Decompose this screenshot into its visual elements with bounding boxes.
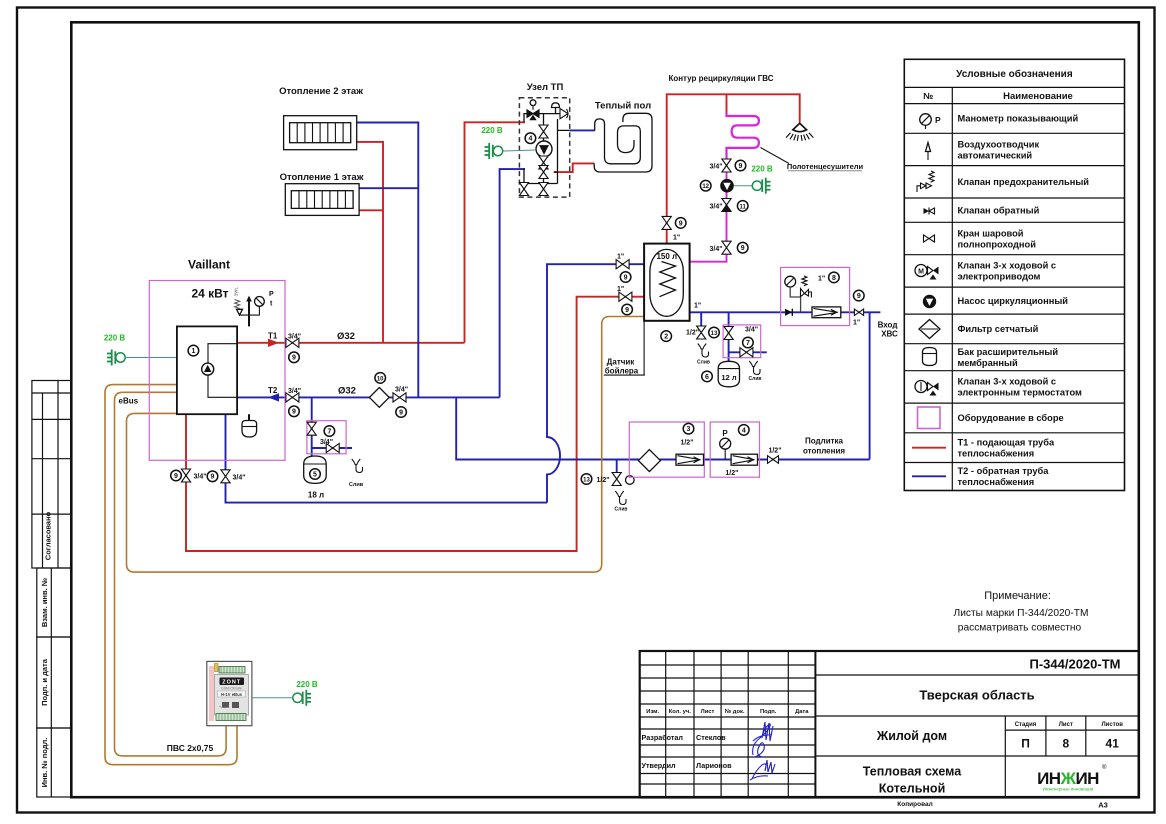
title block row Разработал Стеклов <box>642 733 727 742</box>
svg-text:Подлитка: Подлитка <box>805 437 844 446</box>
wire 18l expansion stub <box>312 397 352 456</box>
wire red riser radiators <box>357 142 383 343</box>
svg-text:М: М <box>918 269 924 276</box>
node 7 12l <box>743 337 754 348</box>
check valve box8 <box>785 309 792 316</box>
filter makeup (diamond) <box>638 450 660 472</box>
ZONT bottom terminal <box>216 714 246 721</box>
node 9 tank left blue <box>620 272 631 283</box>
wire eBus 2 <box>115 392 227 756</box>
svg-text:1": 1" <box>853 320 860 327</box>
wire T1 riser to Узел ТП <box>465 122 526 342</box>
svg-text:3/4": 3/4" <box>710 204 723 211</box>
wire red from floor loop <box>554 163 594 172</box>
svg-text:Контур рециркуляции ГВС: Контур рециркуляции ГВС <box>668 74 773 83</box>
svg-text:10: 10 <box>377 376 384 382</box>
drain 12l <box>749 361 760 375</box>
valve makeup <box>768 456 779 464</box>
ZONT module body <box>207 661 252 725</box>
ZONT 220V plug <box>293 693 302 702</box>
wire red DHW supply from boiler bottom <box>186 297 660 551</box>
ZONT 220V teal wire <box>252 697 292 699</box>
legend symbol кран шаровой <box>924 235 935 242</box>
wire GVS red tank top riser <box>667 94 800 243</box>
svg-text:рассматривать совместно: рассматривать совместно <box>958 623 1082 634</box>
wire blue DHW riser with hop <box>547 264 644 502</box>
svg-text:1": 1" <box>818 276 825 283</box>
ZONT connectors <box>222 702 229 708</box>
legend symbol предохранительный <box>929 171 934 182</box>
svg-text:Клапан обратный: Клапан обратный <box>958 205 1040 215</box>
svg-text:9: 9 <box>624 274 628 281</box>
valve tank drain <box>697 326 706 333</box>
svg-text:П-344/2020-ТМ: П-344/2020-ТМ <box>1030 657 1121 672</box>
ZONT face plate <box>215 675 249 716</box>
Узел ТП pump <box>536 141 552 157</box>
ZONT top terminal <box>219 667 245 674</box>
svg-text:eBus: eBus <box>119 397 139 406</box>
node 2 tank <box>661 331 672 342</box>
wire 220V to boiler <box>126 357 177 359</box>
pump towel (dark) <box>721 180 733 192</box>
svg-text:9: 9 <box>399 409 403 416</box>
wire blue riser radiators <box>357 123 419 398</box>
svg-text:Насос циркуляционный: Насос циркуляционный <box>958 296 1069 306</box>
svg-text:Клапан предохранительный: Клапан предохранительный <box>958 177 1090 187</box>
flex connector box4 <box>731 454 757 465</box>
svg-text:теплоснабжения: теплоснабжения <box>958 477 1035 487</box>
svg-text:220 В: 220 В <box>751 165 773 174</box>
svg-text:5: 5 <box>313 471 317 478</box>
svg-text:Инженерные инновации: Инженерные инновации <box>1043 787 1094 792</box>
svg-text:Манометр показывающий: Манометр показывающий <box>958 114 1079 124</box>
svg-text:7: 7 <box>327 428 331 435</box>
svg-text:Р: Р <box>722 429 728 438</box>
svg-text:Изм.: Изм. <box>646 709 659 715</box>
svg-text:150 л: 150 л <box>656 252 677 261</box>
legend symbol воздухоотводчик <box>926 143 931 152</box>
mesh filter box8 <box>812 307 841 318</box>
svg-text:Ø32: Ø32 <box>337 331 355 342</box>
svg-text:8: 8 <box>832 275 836 282</box>
svg-text:4: 4 <box>742 427 746 434</box>
Узел ТП balancing valve <box>539 125 548 132</box>
node 9 towel v1 <box>735 160 746 171</box>
wire T1 supply from boiler <box>237 342 464 344</box>
left strip box Подп. и дата <box>37 637 72 728</box>
svg-text:П: П <box>1021 737 1030 751</box>
drain tank <box>698 344 709 358</box>
svg-text:GSM-Climate: GSM-Climate <box>221 687 242 691</box>
box8 gauge stem <box>790 287 800 312</box>
left strip box Взам. инв. № <box>37 568 72 637</box>
node 7 18l <box>324 426 335 437</box>
wire towel magenta serpentine <box>727 113 759 161</box>
svg-text:Наименование: Наименование <box>1003 91 1073 102</box>
wire red stub to towel coil <box>726 94 728 113</box>
wire boiler sensor <box>127 317 645 573</box>
callout line полотенцесушители <box>761 148 790 164</box>
stage cells labels <box>1015 722 1124 728</box>
ball valve after box8 <box>854 309 863 315</box>
legend symbol Т1 red line <box>912 447 946 449</box>
svg-text:Примечание:: Примечание: <box>984 590 1051 602</box>
legend symbol 3-х ходовой с электроприводом <box>915 265 927 277</box>
node 13 makeup drain <box>581 474 592 485</box>
wire T2 arrow <box>268 393 279 401</box>
svg-text:Стеклов: Стеклов <box>696 733 726 742</box>
svg-text:41: 41 <box>1106 737 1120 751</box>
towel pump 220V plug <box>752 181 761 190</box>
svg-text:Стадия: Стадия <box>1015 722 1037 728</box>
svg-text:бойлера: бойлера <box>605 367 639 376</box>
node 11 towel <box>737 201 748 212</box>
valve boiler red drop <box>181 469 190 476</box>
svg-text:3/4": 3/4" <box>233 474 246 481</box>
svg-text:Ларионов: Ларионов <box>696 761 732 770</box>
wire makeup blue <box>456 397 869 459</box>
equipment box 3 (magenta) <box>629 422 704 477</box>
svg-text:Вход: Вход <box>878 321 898 330</box>
svg-text:1/2": 1/2" <box>686 330 699 337</box>
wire tank drain stub <box>700 312 702 326</box>
manometer box4 <box>720 438 731 449</box>
svg-text:Датчик: Датчик <box>607 358 636 367</box>
valve T2 <box>286 393 299 402</box>
radiator floor 1 <box>285 184 359 216</box>
valve 12l stub <box>724 327 733 334</box>
title block right grid <box>815 675 1138 798</box>
node 9 T1 <box>289 352 300 363</box>
svg-text:8: 8 <box>1062 737 1069 751</box>
title block outer <box>640 651 1139 798</box>
boiler manometer P t <box>255 297 265 307</box>
svg-text:Лист: Лист <box>701 709 715 715</box>
svg-text:12: 12 <box>702 184 709 190</box>
DHW tank inner oval <box>650 249 683 316</box>
svg-text:ИНЖИН: ИНЖИН <box>1037 769 1099 788</box>
DHW tank coil zigzag <box>660 262 676 297</box>
svg-text:Тепловая схема: Тепловая схема <box>863 765 962 779</box>
svg-text:Бак расширительный: Бак расширительный <box>958 347 1059 357</box>
svg-text:Дата: Дата <box>795 709 809 715</box>
dashed box Узел ТП <box>519 98 569 197</box>
svg-text:13: 13 <box>711 331 718 337</box>
svg-text:Слив: Слив <box>615 507 628 513</box>
Узел ТП valve pair below pump <box>539 156 548 163</box>
svg-text:Подп. и дата: Подп. и дата <box>40 658 49 706</box>
svg-text:ПВС 2х0,75: ПВС 2х0,75 <box>167 743 214 753</box>
shower head <box>793 123 807 131</box>
svg-text:1/2": 1/2" <box>597 477 610 484</box>
boiler body <box>177 326 237 414</box>
svg-text:1/2": 1/2" <box>768 448 781 455</box>
node 8 <box>829 272 840 283</box>
svg-text:6: 6 <box>705 374 709 381</box>
node 9 after box8 <box>854 290 865 301</box>
boiler internal piping <box>208 344 237 398</box>
boiler pump <box>202 363 214 375</box>
svg-text:Ø32: Ø32 <box>338 386 356 397</box>
svg-text:ЗWL: ЗWL <box>234 287 239 297</box>
valve makeup drain <box>612 473 621 480</box>
svg-text:9: 9 <box>174 473 178 480</box>
box8 safety valve <box>802 276 807 286</box>
node 6 12l <box>702 371 713 382</box>
wire eBus 1 <box>105 385 237 765</box>
svg-text:Vaillant: Vaillant <box>188 258 230 272</box>
node 9 towel v3 <box>737 242 748 253</box>
ZONT logo <box>220 678 245 686</box>
svg-text:Лист: Лист <box>1059 722 1073 728</box>
Узел ТП internal piping <box>524 108 570 196</box>
node 5 18l <box>310 469 321 480</box>
equipment box 4 (magenta) <box>710 422 759 477</box>
svg-text:Листов: Листов <box>1101 722 1123 728</box>
cap makeup drain <box>626 476 635 485</box>
svg-text:Оборудование в сборе: Оборудование в сборе <box>958 413 1064 423</box>
svg-text:Тверская область: Тверская область <box>919 688 1034 703</box>
svg-text:1/2": 1/2" <box>725 470 738 477</box>
svg-text:12 л: 12 л <box>721 373 736 382</box>
svg-text:18 л: 18 л <box>308 491 324 500</box>
svg-text:220 В: 220 В <box>104 334 126 343</box>
svg-text:Узел ТП: Узел ТП <box>527 82 564 93</box>
svg-text:3/4": 3/4" <box>194 474 207 481</box>
legend symbol оборудование box <box>918 407 941 429</box>
wire XBC riser blue <box>869 312 871 459</box>
flex connector box3 <box>676 454 704 465</box>
boiler expansion vessel <box>242 421 257 438</box>
svg-text:Отопление 2 этаж: Отопление 2 этаж <box>279 86 363 97</box>
valve tank left blue <box>616 260 629 269</box>
svg-text:Слив: Слив <box>749 376 762 382</box>
wire towel coil serpentine <box>595 119 641 164</box>
svg-text:теплоснабжения: теплоснабжения <box>958 449 1035 459</box>
svg-text:ZONT: ZONT <box>222 680 241 686</box>
Узел ТП 3-way valve <box>527 110 539 118</box>
Узел ТП 220V plug <box>493 146 502 155</box>
svg-text:Т1 - подающая труба: Т1 - подающая труба <box>958 438 1055 448</box>
valve 18l horizontal <box>326 443 339 452</box>
svg-text:Р: Р <box>269 291 274 298</box>
svg-text:13: 13 <box>583 477 590 483</box>
svg-text:9: 9 <box>679 220 683 227</box>
legend symbol Т2 blue line <box>912 475 946 477</box>
valve tank top riser <box>662 216 671 223</box>
valve tank left red <box>619 292 632 301</box>
node 13 tank drain <box>709 327 720 338</box>
ZONT pink side strip <box>209 666 214 721</box>
valve 18l stub <box>307 422 316 429</box>
Узел ТП air vent <box>552 103 560 108</box>
legend symbol манометр <box>920 114 932 126</box>
legend symbol бак <box>923 348 937 366</box>
left strip box Инв. № подл. <box>37 728 72 797</box>
equipment box 8 (magenta) <box>781 267 850 325</box>
svg-text:мембранный: мембранный <box>958 358 1018 368</box>
node 9 boiler red drop <box>171 470 182 481</box>
towel pump teal wire <box>734 185 753 187</box>
svg-text:9: 9 <box>739 163 743 170</box>
svg-text:Слив: Слив <box>349 482 364 488</box>
Узел ТП pump feed teal <box>503 150 536 151</box>
svg-text:Инв. № подл.: Инв. № подл. <box>40 738 49 788</box>
drain makeup <box>615 491 626 505</box>
svg-text:9: 9 <box>857 293 861 300</box>
node 4 Узел ТП <box>525 133 536 144</box>
svg-text:электронным термостатом: электронным термостатом <box>958 388 1083 398</box>
filter T2 (diamond) <box>369 388 389 408</box>
title block row Утвердил Ларионов <box>642 761 733 770</box>
svg-text:1: 1 <box>191 348 195 355</box>
svg-text:3/4": 3/4" <box>710 164 723 171</box>
Узел ТП bottom valve center <box>539 183 548 190</box>
radiator floor 2 <box>284 116 357 150</box>
expansion tank 18l <box>304 456 327 483</box>
svg-text:Клапан 3-х ходовой с: Клапан 3-х ходовой с <box>958 261 1057 271</box>
wire blue DHW return to boiler bottom <box>226 414 548 502</box>
svg-text:1": 1" <box>617 286 624 293</box>
left strip: Соглас: table <box>32 381 71 569</box>
wire T1 arrow <box>268 339 279 347</box>
wire makeup drain stub <box>616 460 618 473</box>
svg-text:Отопление 1 этаж: Отопление 1 этаж <box>280 172 364 183</box>
svg-text:Клапан 3-х ходовой с: Клапан 3-х ходовой с <box>958 377 1057 387</box>
equipment box Vaillant (magenta) <box>149 281 285 461</box>
node 9 after filter <box>396 407 407 418</box>
svg-text:4: 4 <box>528 136 532 143</box>
svg-text:H-1V eBus: H-1V eBus <box>221 692 243 697</box>
equipment box 18l group (magenta) <box>307 421 346 454</box>
svg-text:Теплый пол: Теплый пол <box>595 101 651 112</box>
svg-text:Р: Р <box>935 115 941 125</box>
svg-text:Полотенцесушители: Полотенцесушители <box>787 162 864 171</box>
valve after filter <box>393 393 406 402</box>
node 1 boiler <box>188 345 199 356</box>
svg-text:Разработал: Разработал <box>642 733 684 742</box>
boiler relief valve <box>237 309 243 315</box>
svg-text:ХВС: ХВС <box>881 330 898 339</box>
valve towel v1 <box>722 159 731 166</box>
svg-text:220 В: 220 В <box>296 680 318 689</box>
box8 manometer <box>785 276 796 287</box>
drain 18l <box>352 459 363 473</box>
wire floor loop outer <box>594 113 652 172</box>
equipment box 12l group (magenta) <box>723 325 761 358</box>
wire T2 riser from Узел ТП <box>500 169 525 397</box>
node 12 towel pump <box>700 180 711 191</box>
legend symbol насос <box>924 296 936 308</box>
svg-text:автоматический: автоматический <box>958 150 1033 160</box>
svg-text:Утвердил: Утвердил <box>642 761 677 770</box>
node 9 boiler blue drop <box>207 471 218 482</box>
legend symbol 3-х ходовой с термостатом <box>915 381 927 393</box>
svg-text:Копировал: Копировал <box>897 801 932 808</box>
svg-text:11: 11 <box>740 204 747 210</box>
svg-text:9: 9 <box>292 409 296 416</box>
svg-text:7: 7 <box>746 340 750 347</box>
svg-text:Слив: Слив <box>697 360 710 366</box>
check valve towel (11) <box>722 199 731 206</box>
svg-text:№ док.: № док. <box>725 709 745 715</box>
svg-text:Согласовано: Согласовано <box>44 511 53 560</box>
legend symbol фильтр <box>919 320 940 339</box>
boiler 220V plug <box>116 353 125 362</box>
ZONT antenna nub <box>215 664 219 672</box>
svg-text:Кран шаровой: Кран шаровой <box>958 228 1024 238</box>
wire towel branch magenta <box>690 160 727 262</box>
svg-text:№: № <box>923 91 933 101</box>
svg-text:Кол. уч.: Кол. уч. <box>669 709 691 715</box>
svg-text:9: 9 <box>211 474 215 481</box>
svg-text:Воздухоотводчик: Воздухоотводчик <box>958 139 1040 149</box>
svg-text:А3: А3 <box>1098 801 1108 810</box>
node 10 filter <box>375 373 386 384</box>
title block grid left part <box>640 651 816 798</box>
svg-text:9: 9 <box>741 245 745 252</box>
boiler safety group arrow up <box>246 296 252 302</box>
svg-text:3: 3 <box>687 426 691 433</box>
svg-text:1": 1" <box>673 235 680 242</box>
wire T2 return to boiler <box>237 396 500 398</box>
stage values П 8 41 <box>1021 737 1119 751</box>
svg-text:1": 1" <box>694 303 701 310</box>
svg-text:электроприводом: электроприводом <box>958 272 1041 282</box>
legend symbol обратный <box>924 208 930 214</box>
valve boiler blue drop <box>221 470 230 477</box>
Узел ТП bottom valve left <box>519 183 528 190</box>
svg-text:полнопроходной: полнопроходной <box>958 239 1037 249</box>
svg-text:Условные обозначения: Условные обозначения <box>956 68 1073 80</box>
node 3 <box>683 423 694 434</box>
valve T1 <box>286 338 299 347</box>
title block header labels <box>646 709 809 715</box>
svg-text:®: ® <box>1102 764 1107 771</box>
svg-text:3/4": 3/4" <box>745 327 758 334</box>
svg-text:1/2": 1/2" <box>680 440 693 447</box>
Узел ТП check valve <box>560 109 568 119</box>
svg-text:24 кВт: 24 кВт <box>191 287 228 301</box>
node 9 T2 <box>289 406 300 417</box>
wire blue to floor loop <box>570 129 595 131</box>
boiler safety group stem <box>248 299 250 421</box>
node 9 tank top <box>675 218 686 229</box>
svg-text:Жилой дом: Жилой дом <box>876 729 947 743</box>
svg-text:1": 1" <box>617 254 624 261</box>
svg-text:Котельной: Котельной <box>879 782 946 796</box>
svg-text:Подп.: Подп. <box>760 709 777 715</box>
svg-text:220 В: 220 В <box>481 126 503 135</box>
svg-text:2: 2 <box>664 334 668 341</box>
svg-text:Листы марки П-344/2020-ТМ: Листы марки П-344/2020-ТМ <box>954 608 1089 619</box>
legend table grid <box>904 59 1124 490</box>
node 4 makeup <box>739 425 750 436</box>
expansion tank 12l <box>718 361 739 387</box>
valve 12l horizontal <box>740 348 753 357</box>
wire expansion 12l stub <box>729 312 767 361</box>
svg-text:Фильтр сетчатый: Фильтр сетчатый <box>958 324 1039 334</box>
valve towel v3 <box>722 241 731 248</box>
svg-text:отопления: отопления <box>803 447 845 456</box>
svg-text:9: 9 <box>625 307 629 314</box>
callout lines Датчик бойлера <box>604 321 645 375</box>
svg-text:Т2 - обратная труба: Т2 - обратная труба <box>958 466 1050 476</box>
node 9 tank left red <box>622 304 633 315</box>
DHW tank 150l body <box>644 244 690 321</box>
wire tank bottom blue <box>690 311 881 313</box>
svg-text:Т1: Т1 <box>268 331 278 340</box>
